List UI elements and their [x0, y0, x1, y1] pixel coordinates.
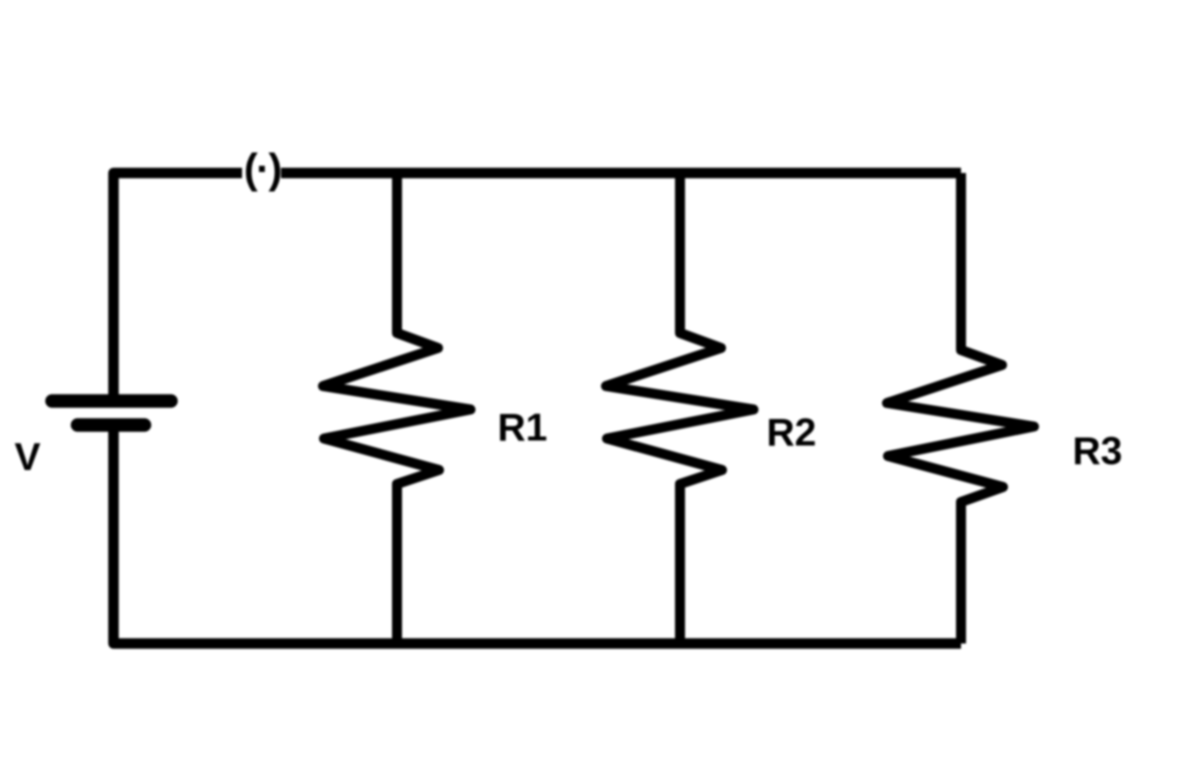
battery V (voltage source) bottom plate — [78, 418, 145, 432]
resistor R2 (branch wire + zigzag) — [606, 173, 754, 644]
node (·) marker background on top wire — [242, 150, 281, 194]
svg-text:V: V — [15, 436, 41, 479]
resistor R1 (branch wire + zigzag) — [323, 173, 471, 644]
svg-text:R1: R1 — [498, 407, 548, 450]
svg-text:R3: R3 — [1073, 430, 1123, 473]
resistor R3 (right branch wire + zigzag) — [887, 173, 1034, 644]
svg-text:(·): (·) — [244, 145, 281, 192]
wire outer loop (top, left, right, bottom rails) — [114, 173, 962, 644]
battery V (voltage source) top plate — [52, 394, 171, 408]
svg-text:R2: R2 — [767, 412, 817, 455]
